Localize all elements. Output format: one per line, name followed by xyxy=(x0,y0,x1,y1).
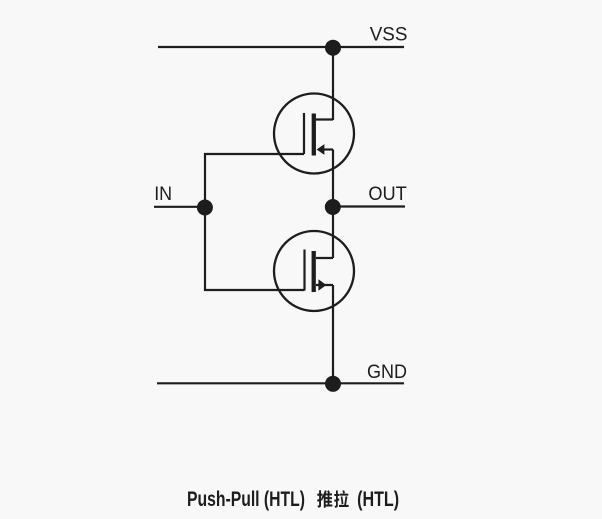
caption: Push-Pull (HTL) xyxy=(187,488,305,511)
node: IN junction dot xyxy=(197,200,213,216)
wire: OUT lead xyxy=(333,205,405,207)
transistor Q1 (top P-channel MOSFET) xyxy=(274,94,354,174)
node: VSS junction dot xyxy=(325,40,341,56)
svg-text:Push-Pull (HTL): Push-Pull (HTL) xyxy=(187,488,305,511)
label OUT xyxy=(368,184,407,205)
svg-text:VSS: VSS xyxy=(370,25,408,46)
transistor Q2 (bottom N-channel MOSFET) xyxy=(274,231,354,311)
wire: gate bus (left vertical with leads to both gates) xyxy=(205,154,305,290)
svg-text:OUT: OUT xyxy=(368,184,407,205)
svg-text:IN: IN xyxy=(154,184,172,205)
wire: VSS rail xyxy=(158,46,404,48)
wire: IN lead xyxy=(154,206,205,208)
label IN xyxy=(154,184,172,205)
wire: OUT node to Q2 drain xyxy=(332,207,334,258)
node: OUT junction dot xyxy=(325,199,341,215)
caption: CJK 推 xyxy=(317,490,332,508)
wire: Q1 source to OUT node xyxy=(332,150,334,208)
wire: Q1 drain to VSS xyxy=(332,47,334,120)
caption: CJK 拉 xyxy=(334,490,349,508)
label GND xyxy=(367,362,407,383)
wire: GND rail xyxy=(157,382,404,384)
svg-text:GND: GND xyxy=(367,362,407,383)
svg-text:(HTL): (HTL) xyxy=(357,488,399,511)
wire: Q2 source to GND xyxy=(332,285,334,383)
label VSS xyxy=(370,25,408,46)
caption: (HTL) second xyxy=(357,488,399,511)
node: GND junction dot xyxy=(325,376,341,392)
